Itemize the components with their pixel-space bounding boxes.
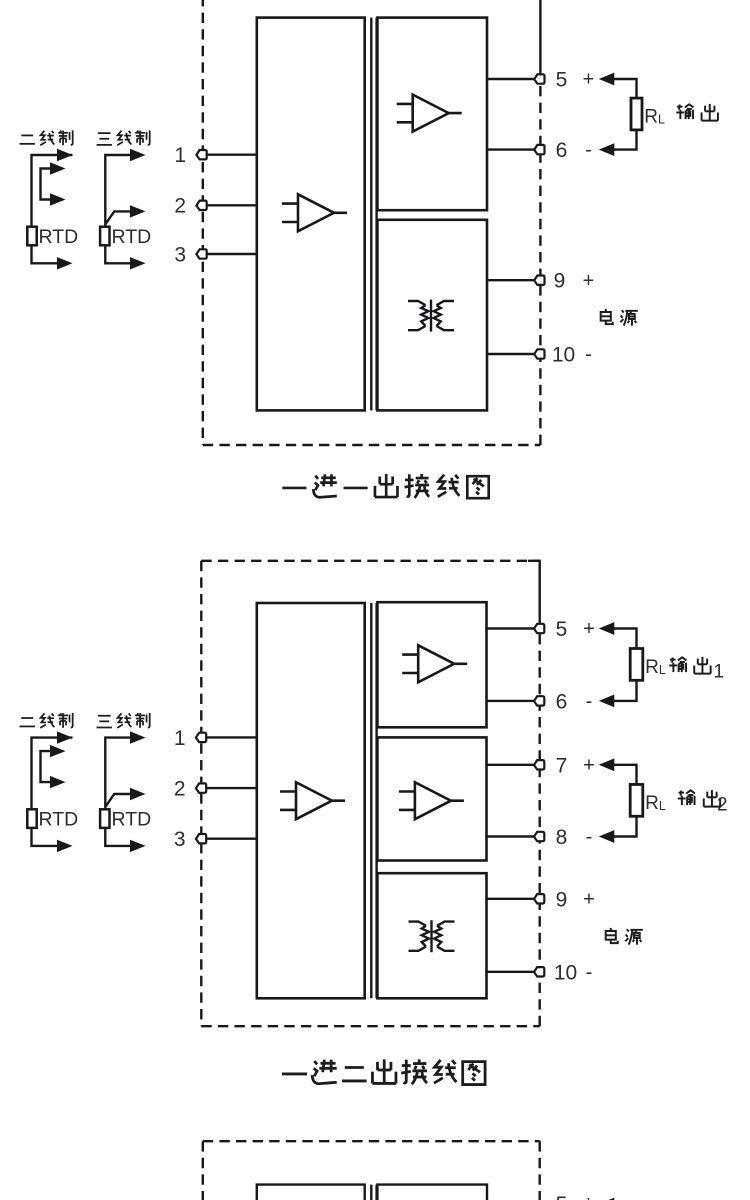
wire arrow (3-wire middle) — [130, 788, 146, 800]
svg-text:1: 1 — [174, 144, 186, 167]
svg-text:+: + — [583, 754, 595, 776]
terminal 2 (diagram 1) — [196, 201, 206, 210]
wire output box to terminal 9 (diagram 1) — [487, 279, 540, 281]
svg-text:+: + — [583, 270, 595, 292]
svg-text:RTD: RTD — [39, 809, 79, 831]
jumper arrow top — [50, 162, 66, 174]
load wire arrow + (diagram 1 output) — [599, 73, 615, 86]
svg-text:2: 2 — [174, 195, 186, 218]
resistor RTD (3-wire) — [100, 227, 109, 246]
svg-text:RTD: RTD — [39, 226, 79, 248]
svg-text:+: + — [583, 618, 595, 640]
svg-text:5: 5 — [556, 1193, 568, 1200]
main input module box (diagram 2) — [257, 603, 365, 998]
terminal 2 (diagram 2) — [196, 783, 206, 792]
wire terminal 3 to input box (diagram 1) — [202, 253, 257, 255]
wire arrow (2-wire top) — [57, 149, 73, 161]
terminal 6 (diagram 1) — [534, 145, 544, 154]
svg-text:+: + — [583, 69, 595, 91]
terminal 9 (diagram 2) — [534, 894, 544, 903]
wire arrow (3-wire middle) — [130, 205, 146, 217]
dashed enclosure top edge (diagram 2) — [201, 560, 539, 562]
svg-text:-: - — [586, 961, 593, 983]
label 电源 power (diagram 1) — [601, 309, 638, 326]
jumper arrow top — [50, 745, 66, 757]
terminal 5 (diagram 1) — [534, 74, 544, 83]
load wire arrow - (diagram 2 output 2) — [599, 830, 615, 843]
svg-text:3: 3 — [174, 828, 186, 851]
transformer T1 power isolation (diagram 1) — [408, 300, 454, 332]
resistor RTD (3-wire) — [100, 809, 109, 828]
output module box (diagram 1) — [377, 18, 487, 211]
op-amp U1 input stage (diagram 2) — [280, 782, 345, 819]
load loop wire (diagram 2 output 1) — [614, 629, 637, 701]
svg-text:9: 9 — [554, 270, 566, 293]
RTD sensor wiring examples (diagram 1) — [20, 130, 152, 269]
label 二线制 (diagram 2) — [20, 713, 73, 728]
wire terminal 2 to input box (diagram 2) — [202, 787, 257, 789]
svg-text:RTD: RTD — [112, 226, 152, 248]
svg-text:-: - — [586, 826, 593, 848]
resistor RTD (2-wire) — [27, 227, 36, 246]
power module box (diagram 2) — [377, 873, 486, 998]
dashed enclosure left edge (diagram 3) — [202, 1141, 204, 1200]
main input module box (diagram 1) — [257, 18, 365, 411]
svg-text:RL: RL — [645, 657, 666, 678]
wire arrow (2-wire bottom) — [57, 840, 73, 852]
wire terminal 3 to input box (diagram 2) — [202, 838, 257, 840]
dashed enclosure bottom edge (diagram 2) — [201, 1025, 539, 1027]
caption 一进二出接线图 (diagram 2) — [282, 1059, 485, 1084]
svg-text:10: 10 — [554, 961, 577, 984]
wire terminal 1 to input box (diagram 1) — [202, 153, 257, 155]
dashed enclosure top edge (diagram 3) — [203, 1140, 540, 1142]
resistor RTD (2-wire) — [27, 809, 36, 828]
load wire arrow + (diagram 2 output 1) — [599, 622, 615, 635]
2-wire shorting jumper bracket — [41, 169, 51, 200]
load loop wire (diagram 2 output 2) — [614, 765, 637, 837]
resistor RL (diagram 2 output 2) — [630, 784, 643, 816]
load wire arrow + (diagram 2 output 2) — [599, 758, 615, 771]
load wire arrow - (diagram 2 output 1) — [599, 695, 615, 708]
dashed enclosure left edge (diagram 2) — [200, 561, 202, 1026]
op-amp U2 output stage (diagram 1) — [397, 95, 462, 132]
resistor RL (diagram 2 output 1) — [630, 649, 643, 681]
label 电源 power (diagram 2) — [606, 928, 643, 945]
2-wire shorting jumper bracket — [41, 751, 51, 782]
svg-text:9: 9 — [556, 888, 568, 911]
wire output box to terminal 5 (diagram 2) — [487, 627, 540, 629]
svg-text:10: 10 — [552, 344, 575, 367]
svg-text:7: 7 — [556, 754, 568, 777]
caption 一进一出接线图 (diagram 1) — [282, 474, 488, 498]
svg-text:RTD: RTD — [112, 809, 152, 831]
2-wire RTD lead wire — [32, 738, 73, 846]
wire arrow (3-wire top) — [130, 731, 146, 743]
2-wire RTD lead wire — [32, 155, 73, 263]
wire arrow (3-wire bottom) — [130, 257, 146, 269]
svg-text:5: 5 — [556, 618, 568, 641]
svg-text:+: + — [583, 888, 595, 910]
3-wire middle tap wire — [105, 211, 130, 224]
wire arrow (3-wire top) — [130, 149, 146, 161]
output module box (diagram 3, partial) — [377, 1185, 487, 1200]
wire output box to terminal 7 (diagram 2) — [487, 764, 540, 766]
terminal 7 (diagram 2) — [534, 760, 544, 769]
isolation barrier double line (diagram 3, partial) — [370, 1185, 372, 1200]
wire arrow (2-wire top) — [57, 731, 73, 743]
isolation barrier double line (diagram 1) — [370, 18, 372, 411]
label 输出 output1 (diagram 2) — [669, 657, 710, 674]
3-wire RTD lead wire — [105, 155, 130, 263]
wire terminal 1 to input box (diagram 2) — [202, 736, 257, 738]
dashed enclosure right edge (diagram 3) — [539, 1141, 541, 1200]
svg-text:-: - — [586, 691, 593, 713]
wire output box to terminal 6 (diagram 1) — [487, 148, 540, 150]
terminal 6 (diagram 2) — [534, 696, 544, 705]
svg-text:6: 6 — [556, 139, 568, 162]
solid corner segment to terminal 5 (diagram 2) — [528, 561, 540, 629]
label 输出 output2 (diagram 2) — [678, 790, 720, 807]
wire arrow (3-wire bottom) — [130, 840, 146, 852]
svg-text:+: + — [583, 1193, 595, 1200]
svg-text:3: 3 — [174, 243, 186, 266]
terminal 10 (diagram 1) — [534, 349, 544, 358]
jumper arrow bottom — [50, 776, 66, 788]
load loop wire (diagram 1 output) — [614, 79, 637, 150]
RTD sensor wiring examples (diagram 2) — [20, 713, 152, 852]
terminal 1 (diagram 1) — [196, 150, 206, 159]
power module box (diagram 1) — [377, 220, 487, 411]
label 三线制 (diagram 2) — [97, 713, 150, 728]
main input module box (diagram 3, partial) — [257, 1185, 365, 1200]
terminal 8 (diagram 2) — [534, 832, 544, 841]
terminal 3 (diagram 2) — [196, 834, 206, 843]
wire output box to terminal 10 (diagram 1) — [487, 353, 540, 355]
svg-text:-: - — [585, 344, 592, 366]
resistor RL (diagram 1 output) — [631, 98, 642, 130]
svg-text:RL: RL — [644, 107, 665, 128]
svg-text:2: 2 — [174, 778, 186, 801]
svg-text:5: 5 — [556, 69, 568, 92]
wire terminal 2 to input box (diagram 1) — [202, 204, 257, 206]
op-amp U2 output 1 (diagram 2) — [402, 645, 467, 682]
label 输出 output (diagram 1) — [676, 104, 718, 121]
svg-text:1: 1 — [714, 662, 725, 683]
terminal 10 (diagram 2) — [534, 967, 544, 976]
wire output box to terminal 6 (diagram 2) — [487, 700, 540, 702]
label 二线制 (diagram 1) — [20, 130, 73, 145]
wire arrow (2-wire bottom) — [57, 257, 73, 269]
wire output box to terminal 9 (diagram 2) — [487, 898, 540, 900]
load wire arrow - (diagram 1 output) — [599, 143, 615, 156]
terminal 3 (diagram 1) — [196, 249, 206, 258]
load wire arrow (diagram 3, partial) — [599, 1198, 615, 1200]
terminal 5 (diagram 2) — [534, 624, 544, 633]
3-wire middle tap wire — [105, 794, 130, 807]
svg-text:RL: RL — [645, 793, 666, 814]
jumper arrow bottom — [50, 193, 66, 205]
wire output box to terminal 10 (diagram 2) — [487, 971, 540, 973]
svg-text:1: 1 — [174, 727, 186, 750]
transformer T1 power isolation (diagram 2) — [409, 920, 455, 952]
output module 2 box (diagram 2) — [377, 737, 486, 860]
output module 1 box (diagram 2) — [377, 602, 486, 727]
3-wire RTD lead wire — [105, 738, 130, 846]
svg-text:8: 8 — [556, 826, 568, 849]
wire output box to terminal 8 (diagram 2) — [487, 835, 540, 837]
label 三线制 (diagram 1) — [97, 130, 150, 145]
op-amp U3 output 2 (diagram 2) — [399, 782, 464, 819]
dashed enclosure right edge (diagram 1) — [539, 79, 541, 445]
dashed enclosure left edge (diagram 1) — [202, 0, 204, 445]
terminal 9 (diagram 1) — [534, 276, 544, 285]
svg-text:6: 6 — [556, 690, 568, 713]
wire output box to terminal 5 (diagram 1) — [487, 78, 540, 80]
solid segment of right edge above terminal 5 — [539, 0, 541, 79]
terminal 1 (diagram 2) — [196, 733, 206, 742]
op-amp U1 input stage (diagram 1) — [282, 194, 347, 231]
dashed enclosure right edge (diagram 2) — [539, 629, 541, 1027]
svg-text:-: - — [585, 139, 592, 161]
isolation barrier double line (diagram 2) — [370, 603, 372, 998]
svg-text:2: 2 — [717, 795, 728, 816]
dashed enclosure bottom edge (diagram 1) — [203, 444, 541, 446]
